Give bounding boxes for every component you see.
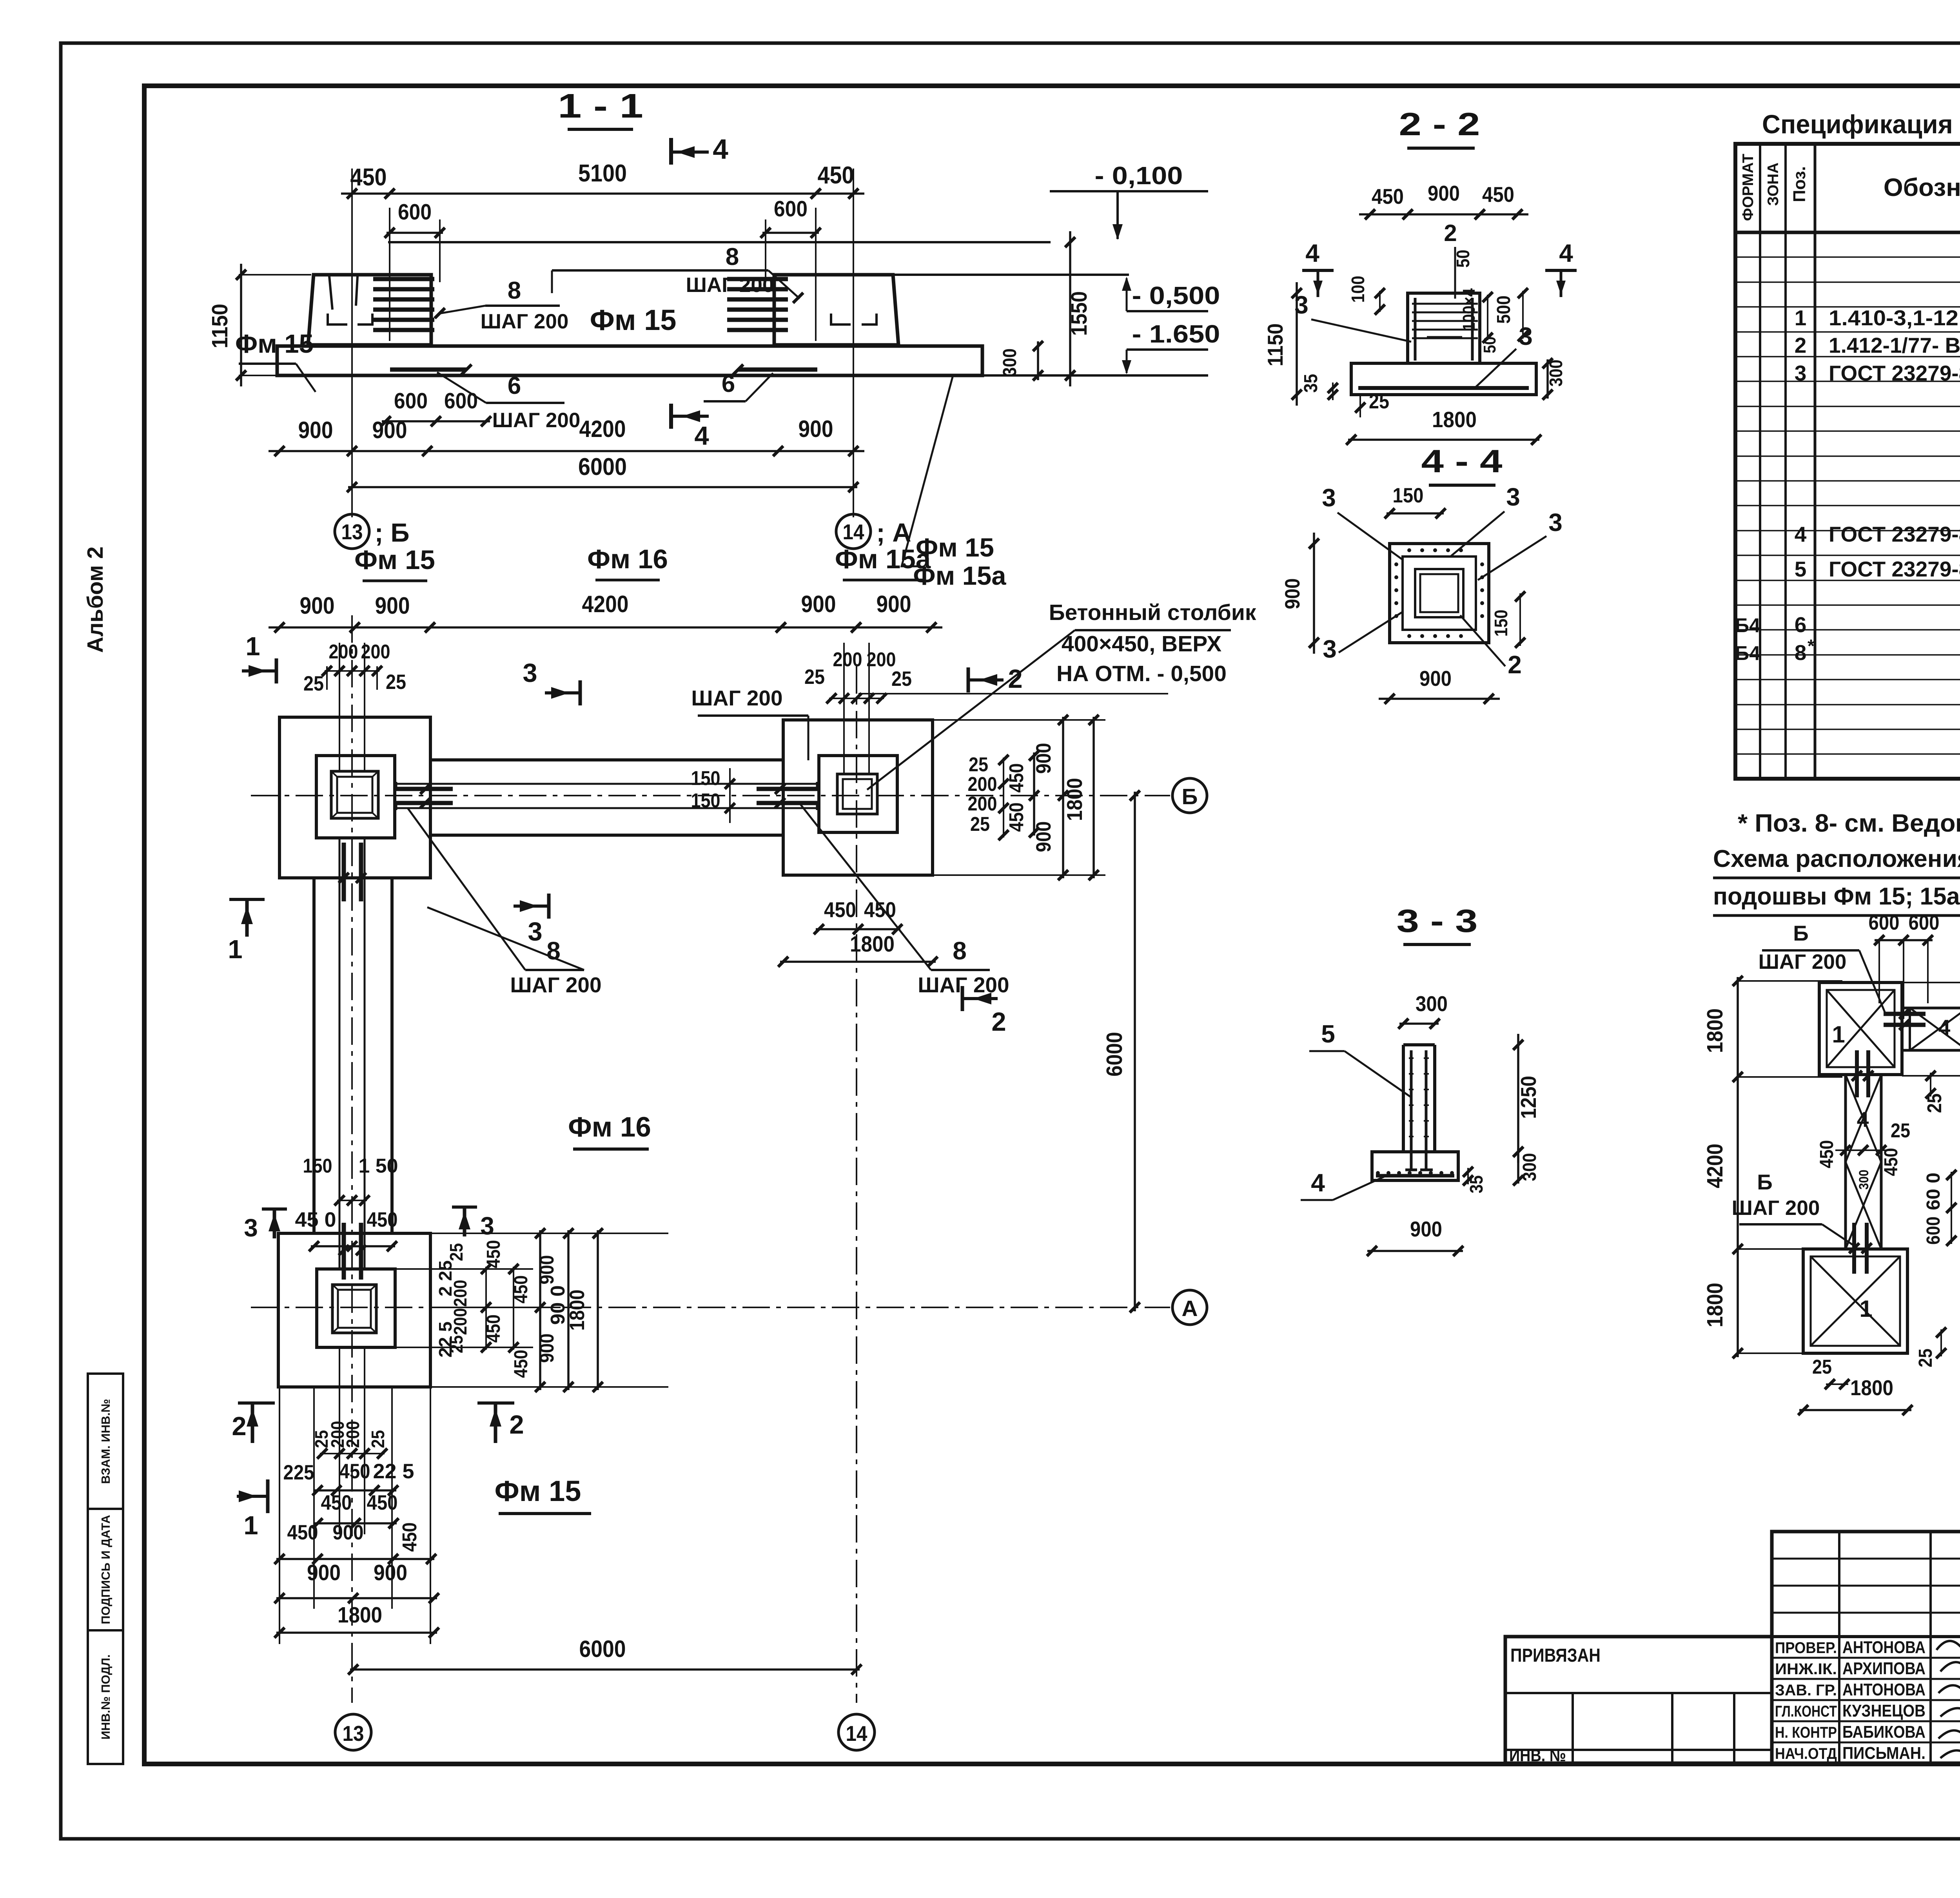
svg-text:4 - 4: 4 - 4 bbox=[1421, 443, 1503, 479]
section 3-3 footing rebar dots bbox=[1376, 1171, 1380, 1175]
plan grid bubble A bbox=[1172, 1290, 1207, 1325]
schema left dims 1800 4200 1800 bbox=[1737, 977, 1739, 1357]
svg-text:4: 4 bbox=[1795, 522, 1807, 546]
plan cut mark 3 left mid bbox=[273, 1209, 276, 1238]
svg-text:25: 25 bbox=[970, 813, 990, 835]
plan bottom pad column bbox=[332, 1285, 376, 1333]
section 2-2 slab bbox=[1351, 363, 1536, 395]
svg-text:225: 225 bbox=[283, 1461, 314, 1484]
spec table header bottom line bbox=[1735, 231, 1960, 234]
plan grid line A bbox=[251, 1307, 1170, 1308]
svg-text:3: 3 bbox=[1294, 291, 1308, 319]
plan dims 200 200 near col14 top bbox=[843, 643, 845, 774]
section 1-1 cut mark 4 bottom bbox=[671, 415, 709, 418]
svg-text:Б: Б bbox=[1757, 1170, 1773, 1194]
section 1-1 level shelf -0.100 bbox=[1050, 190, 1208, 192]
svg-text:ИНВ. №: ИНВ. № bbox=[1509, 1746, 1566, 1765]
svg-text:900: 900 bbox=[1032, 743, 1055, 774]
plan right pad Fm15a outer bbox=[783, 720, 933, 875]
svg-text:- 0,100: - 0,100 bbox=[1095, 161, 1183, 190]
section 1-1 level shelf -0.500 bbox=[1127, 310, 1208, 312]
section 4-4 dim 900 bottom bbox=[1379, 698, 1500, 700]
svg-text:13: 13 bbox=[343, 1721, 364, 1746]
plan grid line 13 bbox=[351, 615, 353, 1703]
svg-text:3: 3 bbox=[1323, 635, 1337, 663]
svg-text:Б4: Б4 bbox=[1735, 614, 1760, 636]
svg-text:900: 900 bbox=[372, 417, 407, 443]
section 1-1 right pedestal mesh bars 8 bbox=[727, 277, 788, 281]
section 4-4 dim 900 left bbox=[1313, 533, 1315, 654]
svg-text:50: 50 bbox=[1453, 250, 1473, 268]
svg-text:2: 2 bbox=[991, 1007, 1006, 1037]
svg-text:300: 300 bbox=[1416, 992, 1448, 1016]
svg-text:2 - 2: 2 - 2 bbox=[1399, 106, 1480, 142]
svg-text:22 5: 22 5 bbox=[373, 1460, 414, 1483]
svg-text:Н. КОНТР: Н. КОНТР bbox=[1775, 1724, 1837, 1741]
section 1-1 dim 1150 left bbox=[240, 264, 242, 386]
plan grid bubble 13 bottom bbox=[335, 1714, 371, 1750]
svg-text:450: 450 bbox=[339, 1460, 370, 1483]
section 1-1 dim 1550 right bbox=[1069, 231, 1071, 386]
svg-text:ШАГ 200: ШАГ 200 bbox=[1759, 950, 1847, 973]
plan left pad column bbox=[331, 771, 378, 818]
svg-text:3: 3 bbox=[1506, 483, 1520, 511]
section 1-1 cut mark 4 top bbox=[669, 138, 673, 165]
svg-text:1: 1 bbox=[245, 632, 260, 661]
plan cut mark 3 right mid bbox=[463, 1207, 466, 1236]
section 1-1 floor level line -0.100 bbox=[388, 241, 1051, 243]
svg-text:ЗАВ. ГР.: ЗАВ. ГР. bbox=[1775, 1682, 1837, 1699]
svg-text:25: 25 bbox=[1369, 390, 1389, 413]
svg-text:3: 3 bbox=[1795, 361, 1807, 385]
section 1-1 level line -0.500 right stub bbox=[894, 274, 1129, 276]
svg-text:450: 450 bbox=[483, 1240, 504, 1268]
svg-text:450: 450 bbox=[350, 164, 387, 191]
svg-text:4: 4 bbox=[1938, 1015, 1951, 1039]
section 1-1 dim row 6000 bbox=[348, 486, 857, 488]
svg-text:ШАГ 200: ШАГ 200 bbox=[691, 686, 782, 710]
svg-text:1800: 1800 bbox=[1432, 407, 1477, 432]
svg-text:КУЗНЕЦОВ: КУЗНЕЦОВ bbox=[1842, 1701, 1926, 1720]
svg-text:4200: 4200 bbox=[582, 591, 629, 617]
svg-text:Фм 15: Фм 15 bbox=[235, 329, 314, 359]
svg-text:Б: Б bbox=[1793, 921, 1809, 945]
left margin stamp boxes bbox=[88, 1374, 123, 1764]
svg-text:25: 25 bbox=[1891, 1119, 1910, 1142]
svg-text:600: 600 bbox=[444, 388, 478, 413]
svg-text:600: 600 bbox=[1909, 911, 1940, 934]
svg-text:100×4: 100×4 bbox=[1459, 288, 1479, 331]
plan strip wall lines bbox=[395, 783, 819, 785]
svg-text:600: 600 bbox=[774, 196, 808, 221]
svg-text:3: 3 bbox=[1548, 508, 1563, 537]
plan vertical strip wall lines bbox=[339, 838, 341, 1269]
svg-text:3: 3 bbox=[480, 1212, 494, 1240]
svg-text:2: 2 bbox=[1508, 651, 1522, 679]
svg-text:25: 25 bbox=[969, 753, 988, 776]
svg-text:450: 450 bbox=[1005, 803, 1027, 832]
svg-text:25: 25 bbox=[804, 665, 825, 689]
svg-text:25: 25 bbox=[1915, 1349, 1936, 1367]
svg-text:ГЛ.КОНСТ: ГЛ.КОНСТ bbox=[1775, 1703, 1837, 1720]
svg-text:900: 900 bbox=[535, 1334, 558, 1363]
plan grid line 14 bbox=[856, 666, 857, 1703]
svg-text:900: 900 bbox=[535, 1255, 558, 1285]
svg-text:Поз.: Поз. bbox=[1790, 166, 1809, 202]
plan dim 1800 below right pad bbox=[780, 961, 936, 963]
svg-text:200: 200 bbox=[833, 648, 862, 671]
section 1-1 grid line 13 vertical bbox=[351, 169, 353, 517]
svg-text:Б: Б bbox=[1182, 784, 1198, 809]
svg-text:- 0,500: - 0,500 bbox=[1132, 281, 1220, 310]
svg-text:150: 150 bbox=[1393, 484, 1424, 507]
svg-text:ФОРМАТ: ФОРМАТ bbox=[1740, 154, 1757, 221]
plan bottom pad middle square bbox=[317, 1269, 395, 1347]
plan vertical strip edges bbox=[312, 878, 316, 1233]
section 2-2 dim 1150 bbox=[1296, 282, 1298, 406]
svg-text:1250: 1250 bbox=[1516, 1076, 1541, 1119]
section 3-3 wall stem bbox=[1402, 1045, 1405, 1152]
svg-text:6: 6 bbox=[722, 370, 735, 397]
schema step outline to small pad bbox=[1902, 1007, 1910, 1010]
svg-text:600: 600 bbox=[1923, 1216, 1944, 1245]
svg-text:450: 450 bbox=[367, 1208, 398, 1231]
svg-text:150: 150 bbox=[691, 767, 720, 789]
section 1-1 dim 600 right bbox=[762, 232, 819, 234]
svg-text:2: 2 bbox=[509, 1410, 524, 1439]
svg-text:2: 2 bbox=[1008, 664, 1022, 694]
svg-text:500: 500 bbox=[1494, 295, 1514, 324]
svg-text:; А: ; А bbox=[876, 518, 911, 547]
section 1-1 level line left stub bbox=[239, 274, 311, 276]
svg-text:ШАГ 200: ШАГ 200 bbox=[1732, 1196, 1820, 1220]
svg-text:900: 900 bbox=[300, 593, 335, 619]
svg-text:450: 450 bbox=[367, 1491, 398, 1514]
svg-text:300: 300 bbox=[1519, 1153, 1540, 1181]
svg-text:3: 3 bbox=[1519, 322, 1533, 350]
svg-text:900: 900 bbox=[307, 1560, 341, 1585]
section 1-1 dim 300 right bbox=[1037, 341, 1039, 380]
svg-text:150: 150 bbox=[1491, 610, 1511, 637]
section 2-2 dim 1800 bbox=[1348, 439, 1539, 441]
svg-text:1800: 1800 bbox=[1062, 778, 1087, 821]
svg-text:1800: 1800 bbox=[1702, 1283, 1728, 1327]
svg-text:- 1.650: - 1.650 bbox=[1132, 320, 1220, 348]
svg-text:1: 1 bbox=[243, 1511, 258, 1540]
svg-text:Б4: Б4 bbox=[1735, 642, 1760, 664]
svg-text:6000: 6000 bbox=[1102, 1032, 1127, 1077]
svg-text:300: 300 bbox=[1857, 1170, 1871, 1190]
spec table column lines bbox=[1759, 144, 1761, 779]
svg-text:*: * bbox=[1808, 636, 1815, 656]
svg-text:ШАГ 200: ШАГ 200 bbox=[492, 409, 581, 432]
svg-text:450: 450 bbox=[1881, 1148, 1902, 1176]
svg-text:50: 50 bbox=[1480, 337, 1499, 353]
svg-text:1: 1 bbox=[1859, 1296, 1872, 1322]
svg-text:14: 14 bbox=[846, 1721, 867, 1746]
svg-text:900: 900 bbox=[333, 1521, 364, 1544]
spec table row lines bbox=[1735, 256, 1960, 258]
svg-text:НАЧ.ОТД: НАЧ.ОТД bbox=[1775, 1745, 1837, 1762]
svg-text:5: 5 bbox=[1321, 1020, 1335, 1048]
schema vertical strip bbox=[1846, 1075, 1881, 1249]
svg-text:900: 900 bbox=[374, 1560, 407, 1585]
svg-text:Альбом 2: Альбом 2 bbox=[83, 546, 108, 653]
svg-text:АНТОНОВА: АНТОНОВА bbox=[1842, 1638, 1926, 1657]
svg-text:ГОСТ 23279-85: ГОСТ 23279-85 bbox=[1829, 557, 1960, 581]
plan cut mark 3 lower bbox=[514, 905, 549, 908]
svg-text:Спецификация элементов монол: Спецификация элементов монолитной констр… bbox=[1762, 110, 1960, 139]
plan cut mark 1 bottom left bbox=[237, 1495, 268, 1498]
plan vertical strip rebar above bottom pad bbox=[342, 1223, 346, 1280]
svg-text:3 - 3: 3 - 3 bbox=[1397, 903, 1478, 939]
svg-text:450: 450 bbox=[287, 1521, 318, 1544]
svg-text:600: 600 bbox=[394, 388, 428, 413]
plan cut mark 2 top right bbox=[968, 678, 1004, 682]
svg-text:450: 450 bbox=[824, 897, 856, 922]
svg-text:4: 4 bbox=[1857, 1107, 1869, 1131]
svg-text:6: 6 bbox=[508, 372, 521, 399]
svg-text:200: 200 bbox=[450, 1280, 470, 1307]
svg-text:ИНЖ.IК.: ИНЖ.IК. bbox=[1775, 1661, 1837, 1678]
svg-text:3: 3 bbox=[528, 917, 542, 946]
svg-text:25: 25 bbox=[368, 1430, 388, 1448]
svg-text:200: 200 bbox=[968, 773, 997, 795]
svg-text:13: 13 bbox=[341, 520, 363, 544]
plan left pad middle square bbox=[316, 756, 395, 838]
plan bottom pad Fm15 outer bbox=[278, 1233, 430, 1387]
svg-text:4: 4 bbox=[1311, 1169, 1325, 1197]
svg-text:450: 450 bbox=[1005, 763, 1027, 793]
section 1-1 footing slab bbox=[277, 346, 982, 375]
section 1-1 mesh bars 6 in slab bbox=[390, 368, 466, 372]
svg-text:1: 1 bbox=[1832, 1021, 1845, 1048]
svg-text:6000: 6000 bbox=[579, 1636, 626, 1662]
svg-text:450: 450 bbox=[864, 897, 896, 922]
svg-text:БАБИКОВА: БАБИКОВА bbox=[1842, 1722, 1926, 1742]
section 2-2 dim 450 900 450 bbox=[1359, 213, 1528, 216]
svg-text:8: 8 bbox=[953, 937, 967, 965]
svg-text:1 50: 1 50 bbox=[359, 1155, 398, 1177]
plan grid bubble B bbox=[1172, 778, 1207, 813]
plan grid bubble 14 bottom bbox=[838, 1714, 875, 1750]
svg-text:ЗОНА: ЗОНА bbox=[1765, 163, 1782, 206]
svg-text:100: 100 bbox=[1348, 276, 1368, 303]
schema strip top rebar bbox=[1855, 1050, 1859, 1097]
plan cut mark 2 bottom right bbox=[962, 997, 998, 1000]
svg-text:8: 8 bbox=[508, 277, 521, 304]
section 2-2 pedestal bbox=[1408, 293, 1480, 363]
svg-text:900: 900 bbox=[1410, 1217, 1442, 1241]
svg-text:Бетонный столбик: Бетонный столбик bbox=[1049, 600, 1256, 625]
section 1-1 left pedestal mesh bars 8 bbox=[373, 277, 434, 281]
section 1-1 left pedestal socket bbox=[329, 276, 332, 310]
svg-text:450: 450 bbox=[1372, 184, 1404, 208]
svg-text:Фм 16: Фм 16 bbox=[587, 544, 668, 574]
plan top dim row 900 900 4200 900 900 bbox=[269, 626, 942, 629]
svg-text:1800: 1800 bbox=[338, 1603, 382, 1628]
svg-text:450: 450 bbox=[1482, 182, 1514, 207]
svg-text:200: 200 bbox=[968, 792, 997, 815]
svg-text:4200: 4200 bbox=[579, 416, 626, 442]
svg-text:1800: 1800 bbox=[1702, 1008, 1728, 1053]
schema strip bottom rebar bbox=[1852, 1223, 1856, 1274]
svg-text:ПОДПИСЬ И ДАТА: ПОДПИСЬ И ДАТА bbox=[99, 1515, 113, 1624]
svg-text:450: 450 bbox=[398, 1523, 421, 1552]
svg-text:Фм 15: Фм 15 bbox=[495, 1475, 581, 1507]
svg-text:ШАГ 200: ШАГ 200 bbox=[918, 973, 1009, 997]
schema right small pad bbox=[1910, 1007, 1960, 1010]
svg-text:25: 25 bbox=[386, 671, 406, 694]
svg-text:НА ОТМ. - 0,500: НА ОТМ. - 0,500 bbox=[1056, 661, 1227, 686]
svg-text:600: 600 bbox=[1869, 911, 1900, 934]
svg-text:2: 2 bbox=[1795, 333, 1807, 357]
plan cut mark 2 bottom right2 bbox=[477, 1401, 514, 1405]
svg-text:Схема расположения сеток: Схема расположения сеток bbox=[1713, 845, 1960, 872]
svg-text:300: 300 bbox=[1000, 348, 1020, 377]
svg-text:Обозначение: Обозначение bbox=[1884, 173, 1960, 201]
plan dims 200 200 25 25 near col13 top bbox=[339, 643, 340, 772]
svg-text:3: 3 bbox=[244, 1214, 258, 1242]
plan cut mark 2 bottom left bbox=[238, 1401, 275, 1405]
section 3-3 stem rebar bbox=[1410, 1050, 1413, 1170]
svg-text:АРХИПОВА: АРХИПОВА bbox=[1842, 1659, 1926, 1678]
plan dims right of bottom pad bbox=[430, 1233, 668, 1234]
section 1-1 level shelf -1.650 bbox=[1127, 348, 1208, 351]
titleblock privyazan block bbox=[1505, 1637, 1772, 1763]
svg-text:6: 6 bbox=[1795, 613, 1807, 637]
plan dim 450 450 below right pad bbox=[816, 928, 900, 930]
svg-text:900: 900 bbox=[1281, 578, 1304, 609]
svg-text:1: 1 bbox=[228, 935, 242, 964]
titleblock narrow table bbox=[1772, 1532, 1960, 1763]
svg-text:25: 25 bbox=[1812, 1356, 1832, 1378]
section 1-1 grid bubble 14 bbox=[836, 514, 871, 549]
svg-text:200: 200 bbox=[343, 1421, 363, 1448]
svg-text:450: 450 bbox=[511, 1350, 532, 1378]
section 4-4 rebar dots bbox=[1407, 548, 1411, 552]
section 1-1 right pedestal bbox=[774, 275, 898, 345]
svg-text:900: 900 bbox=[877, 591, 911, 617]
svg-text:ПРОВЕР.: ПРОВЕР. bbox=[1775, 1639, 1837, 1657]
section 1-1 left pedestal bbox=[308, 275, 431, 345]
svg-text:600: 600 bbox=[398, 199, 432, 225]
section 1-1 grid bubble 13 bbox=[335, 514, 369, 549]
svg-text:200: 200 bbox=[329, 640, 358, 663]
section 3-3 dim 900 bbox=[1367, 1250, 1463, 1252]
svg-text:1800: 1800 bbox=[1850, 1376, 1893, 1400]
svg-text:14: 14 bbox=[843, 520, 864, 544]
svg-text:22 5: 22 5 bbox=[435, 1322, 456, 1358]
section 1-1 dim 600 left bbox=[387, 232, 443, 234]
svg-text:1150: 1150 bbox=[207, 304, 232, 348]
svg-text:2: 2 bbox=[232, 1412, 246, 1441]
svg-text:1800: 1800 bbox=[850, 932, 895, 957]
svg-text:300: 300 bbox=[1546, 360, 1566, 387]
svg-text:25: 25 bbox=[303, 672, 324, 695]
svg-text:5100: 5100 bbox=[578, 160, 627, 187]
titleblock signatures squiggles bbox=[1936, 1640, 1960, 1693]
svg-text:6000: 6000 bbox=[578, 453, 627, 480]
svg-text:ПРИВЯЗАН: ПРИВЯЗАН bbox=[1510, 1645, 1601, 1666]
section 3-3 dim 300 right bbox=[1517, 1149, 1519, 1184]
schema top dim 600 600 bbox=[1875, 939, 1933, 941]
svg-text:1150: 1150 bbox=[1263, 323, 1287, 366]
plan left pad Fm15 outer bbox=[279, 717, 430, 878]
svg-text:8: 8 bbox=[726, 243, 739, 270]
svg-text:3: 3 bbox=[523, 658, 537, 688]
svg-text:450: 450 bbox=[1817, 1140, 1837, 1168]
svg-text:25: 25 bbox=[446, 1243, 466, 1261]
svg-text:450: 450 bbox=[511, 1275, 532, 1303]
section 3-3 dim 1250 bbox=[1517, 1034, 1519, 1163]
svg-text:ГОСТ 23279-85: ГОСТ 23279-85 bbox=[1829, 522, 1960, 546]
plan strip footing top edge bbox=[430, 758, 783, 761]
svg-text:200: 200 bbox=[361, 640, 390, 663]
plan right pad middle square bbox=[819, 756, 897, 832]
plan right pad column bbox=[837, 774, 877, 814]
svg-text:4: 4 bbox=[713, 134, 728, 165]
plan left pad extension lines down bbox=[279, 1387, 280, 1644]
plan wall rebar marks near right pad bbox=[757, 787, 817, 791]
plan vertical strip rebar below left pad bbox=[342, 843, 346, 901]
section 1-1 dim row 900 900 4200 900 bbox=[269, 450, 864, 452]
plan strip footing bottom edge bbox=[430, 834, 783, 837]
svg-text:150: 150 bbox=[303, 1155, 332, 1177]
svg-text:2: 2 bbox=[1444, 220, 1457, 246]
svg-text:4: 4 bbox=[1305, 239, 1319, 267]
svg-text:900: 900 bbox=[1428, 181, 1460, 205]
plan wall rebar marks near left pad bbox=[396, 787, 453, 791]
section 2-2 dim 300 bbox=[1546, 359, 1549, 399]
svg-text:60 0: 60 0 bbox=[1923, 1173, 1944, 1210]
svg-text:подошвы Фм 15; 15а; 16: подошвы Фм 15; 15а; 16 bbox=[1713, 883, 1960, 910]
svg-text:4200: 4200 bbox=[1702, 1144, 1728, 1188]
svg-text:* Поз. 8- см. Ведомость эле: * Поз. 8- см. Ведомость элементов лист 1… bbox=[1738, 809, 1960, 837]
section 1-1 extension lines vertical bbox=[389, 208, 390, 341]
svg-text:1.410-3,1-12: 1.410-3,1-12 bbox=[1829, 306, 1958, 330]
svg-text:ИНВ.№ ПОДЛ.: ИНВ.№ ПОДЛ. bbox=[99, 1654, 113, 1739]
svg-text:Фм 15а: Фм 15а bbox=[835, 544, 931, 574]
svg-text:4: 4 bbox=[694, 421, 709, 451]
svg-text:4: 4 bbox=[1559, 239, 1573, 267]
svg-text:1 - 1: 1 - 1 bbox=[558, 87, 643, 125]
svg-text:ШАГ 200: ШАГ 200 bbox=[510, 973, 601, 997]
schema top pad bbox=[1819, 983, 1902, 1075]
spec table outer bbox=[1735, 144, 1960, 779]
svg-text:ГОСТ 23279-85: ГОСТ 23279-85 bbox=[1829, 361, 1960, 385]
section 4-4 nested squares bbox=[1390, 544, 1489, 643]
plan extension lines right pad bbox=[933, 719, 1105, 721]
svg-text:35: 35 bbox=[1301, 374, 1321, 393]
schema rebar bars to small pad bbox=[1884, 1012, 1926, 1016]
plan cut mark 1 bottom bbox=[229, 898, 265, 901]
svg-text:Фм 16: Фм 16 bbox=[568, 1112, 651, 1143]
section 1-1 dim row 600 600 bbox=[382, 420, 490, 422]
svg-text:Фм 15: Фм 15 bbox=[354, 545, 435, 575]
svg-text:450: 450 bbox=[818, 162, 854, 189]
svg-text:900: 900 bbox=[375, 593, 410, 619]
svg-text:400×450, ВЕРХ: 400×450, ВЕРХ bbox=[1062, 631, 1221, 656]
svg-text:Фм 15: Фм 15 bbox=[590, 304, 677, 336]
plan grid line B bbox=[251, 795, 1170, 796]
svg-text:900: 900 bbox=[1032, 821, 1055, 852]
section 1-1 top dim 450 5100 450 bbox=[341, 192, 864, 195]
svg-text:25: 25 bbox=[891, 667, 912, 691]
svg-text:ШАГ 200: ШАГ 200 bbox=[686, 274, 774, 297]
section 1-1 right pedestal socket bbox=[831, 314, 851, 324]
svg-text:1: 1 bbox=[1795, 306, 1807, 330]
